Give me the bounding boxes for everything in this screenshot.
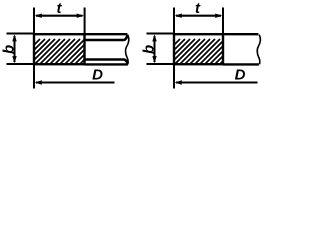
svg-text:b: b [141, 45, 158, 54]
svg-text:D: D [235, 66, 246, 83]
svg-text:b: b [1, 45, 18, 54]
svg-text:D: D [92, 66, 103, 83]
